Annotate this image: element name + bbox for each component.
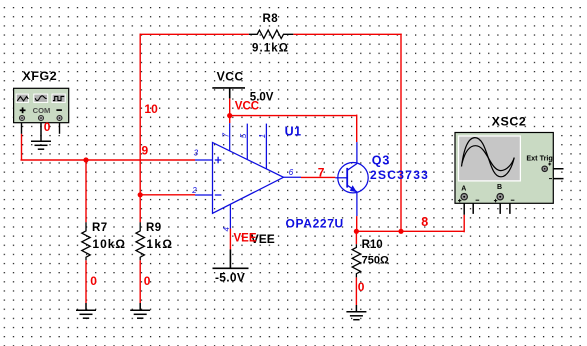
svg-text:B: B [497,184,502,191]
svg-text:2: 2 [191,186,197,195]
svg-text:XSC2: XSC2 [492,114,527,128]
svg-text:Q3: Q3 [372,154,390,168]
svg-text:XFG2: XFG2 [23,69,58,83]
svg-text:0: 0 [44,120,51,134]
svg-text:A: A [461,186,466,193]
svg-text:5: 5 [239,133,248,138]
svg-text:Ext Trig: Ext Trig [526,154,552,163]
svg-text:9.1kΩ: 9.1kΩ [252,43,289,55]
svg-text:0: 0 [144,274,151,288]
svg-text:9: 9 [142,144,149,158]
svg-text:VCC: VCC [235,100,259,112]
svg-text:0: 0 [90,274,97,288]
svg-text:VEE: VEE [234,233,257,245]
svg-text:3: 3 [194,148,199,157]
svg-text:R9: R9 [146,222,162,234]
svg-text:COM: COM [33,106,51,115]
svg-text:1: 1 [258,134,267,138]
svg-text:10: 10 [144,102,158,116]
svg-text:750Ω: 750Ω [362,254,389,266]
svg-text:2SC3733: 2SC3733 [370,168,429,182]
svg-text:OPA227U: OPA227U [286,216,344,230]
svg-text:4: 4 [222,227,231,232]
svg-text:0: 0 [358,280,365,294]
svg-text:7: 7 [221,133,230,138]
svg-text:6: 6 [289,168,294,177]
svg-text:7: 7 [318,165,325,179]
svg-text:VCC: VCC [217,69,244,83]
svg-text:R10: R10 [362,239,383,251]
svg-text:U1: U1 [285,125,302,139]
svg-text:1kΩ: 1kΩ [146,237,173,251]
svg-text:10kΩ: 10kΩ [92,237,126,251]
svg-text:8: 8 [421,215,428,229]
svg-text:-5.0V: -5.0V [215,270,245,284]
svg-text:R7: R7 [92,222,108,234]
svg-text:R8: R8 [263,13,279,25]
